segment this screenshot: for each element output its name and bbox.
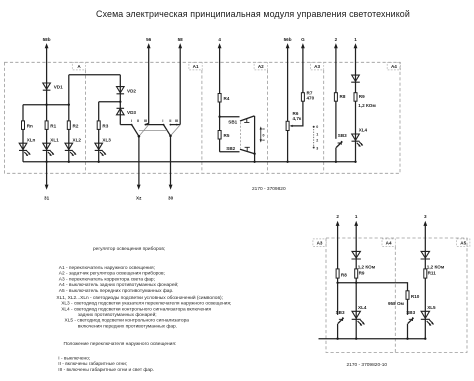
resistor Rn	[22, 121, 25, 129]
pushbutton SB3b actuator	[409, 317, 413, 321]
svg-text:А2 - задатчик регулятора освещ: А2 - задатчик регулятора освещения прибо…	[59, 271, 165, 277]
svg-text:регулятор освещения приборов;: регулятор освещения приборов;	[93, 246, 165, 252]
junction dots bottom schematic	[336, 282, 426, 340]
svg-text:1: 1	[316, 132, 318, 136]
svg-text:A4: A4	[386, 241, 392, 246]
svg-text:VD3: VD3	[127, 110, 136, 115]
diode VD2	[117, 87, 125, 94]
legend text block	[56, 246, 231, 373]
svg-text:58b: 58b	[43, 37, 51, 42]
svg-text:30: 30	[168, 196, 174, 201]
wire switch2 feed from 56	[145, 124, 163, 126]
svg-text:XL5 - светодиод подсветки конт: XL5 - светодиод подсветки контрольного с…	[65, 318, 190, 324]
svg-text:I: I	[162, 119, 163, 123]
svg-text:II: II	[169, 119, 171, 123]
svg-text:A1: A1	[193, 64, 199, 69]
LED XL1	[43, 143, 54, 155]
svg-text:R9: R9	[359, 94, 365, 99]
wire 1 column	[355, 47, 357, 162]
svg-text:задних противотуманных фонарей: задних противотуманных фонарей;	[78, 311, 157, 318]
svg-text:1,2 КОм: 1,2 КОм	[358, 265, 376, 270]
svg-text:А4 - выключатель задних против: А4 - выключатель задних противотуманных …	[59, 281, 179, 288]
resistor R9	[354, 93, 357, 102]
top terminal labels	[43, 37, 358, 201]
wire R5 bottom to SB2	[220, 151, 240, 153]
section divider A1|A2	[201, 70, 203, 173]
wire Rn column	[22, 105, 24, 162]
svg-text:A3: A3	[314, 64, 320, 69]
svg-text:58: 58	[178, 37, 184, 42]
wire 3 column bottom schematic	[424, 225, 426, 339]
svg-text:III: III	[144, 119, 147, 123]
resistor R1	[45, 121, 48, 129]
LED XL2	[65, 143, 76, 155]
wire R3 column	[98, 102, 100, 162]
wire 30 column	[170, 136, 172, 185]
svg-text:R5: R5	[224, 133, 230, 138]
bottom schematic terminal labels	[336, 214, 427, 219]
svg-text:3: 3	[424, 214, 427, 219]
terminal 3 arrow bottom	[423, 221, 427, 226]
svg-text:SB3: SB3	[406, 310, 415, 315]
diode VD3	[117, 108, 125, 115]
diode VD1	[43, 83, 51, 90]
pushbutton SB1 lever	[240, 116, 254, 121]
svg-text:R3: R3	[102, 123, 108, 128]
resistor R7	[301, 93, 304, 102]
svg-text:Rn: Rn	[27, 123, 33, 128]
wire R2 column	[68, 75, 70, 162]
wire 56b column	[287, 47, 289, 162]
svg-text:31: 31	[44, 196, 50, 201]
resistor R5	[218, 131, 221, 140]
svg-text:SB1: SB1	[228, 120, 237, 125]
wire lower bus	[23, 161, 356, 163]
rheostat R6 wiper arrow	[290, 125, 293, 127]
svg-text:А1 - переключатель наружного о: А1 - переключатель наружного освещения;	[59, 265, 155, 271]
wire 56 column	[145, 47, 148, 124]
svg-text:56: 56	[146, 37, 152, 42]
svg-text:XL3: XL3	[102, 138, 111, 143]
wire node bus to R10	[338, 283, 408, 291]
bottom schematic dashed enclosure	[326, 238, 467, 353]
svg-text:II - включены габаритные огни;: II - включены габаритные огни;	[58, 361, 127, 367]
top schematic dashed enclosure	[5, 62, 401, 173]
wire SB3b lower leg	[407, 324, 409, 339]
svg-text:R1: R1	[50, 123, 56, 128]
component labels top schematic	[27, 84, 377, 151]
svg-text:2170 - 3709820-10: 2170 - 3709820-10	[347, 362, 388, 368]
svg-text:1,2 КОм: 1,2 КОм	[358, 103, 376, 108]
wire upper bus	[23, 104, 69, 106]
LED XL5	[421, 311, 434, 325]
svg-text:1: 1	[354, 37, 357, 42]
switch SA2 alternate throw	[171, 125, 181, 136]
svg-text:Положение переключателя наружн: Положение переключателя наружного освеще…	[64, 341, 177, 347]
wire 58 column	[179, 47, 181, 124]
wire ground bus bottom schematic	[319, 338, 426, 340]
wire 2 column bottom schematic	[337, 225, 339, 315]
LED XL3	[95, 143, 106, 155]
LED XL4	[352, 134, 363, 146]
svg-text:A2: A2	[258, 64, 264, 69]
wire 4 column through R4 R5	[219, 47, 221, 152]
switch coupling link	[139, 130, 167, 132]
wire Xz column	[138, 136, 140, 185]
svg-text:0: 0	[316, 125, 318, 129]
pushbutton SB3 lever	[336, 142, 342, 148]
svg-text:4,7к: 4,7к	[293, 116, 302, 121]
svg-text:G: G	[301, 37, 305, 42]
terminal 2 arrow	[334, 43, 338, 48]
svg-text:включения передних противотума: включения передних противотуманных фар.	[78, 323, 177, 329]
button travel annotation	[260, 126, 265, 142]
svg-text:XL4 - светодиод подсветки кон: XL4 - светодиод подсветки контрольного с…	[61, 306, 211, 312]
resistor R3	[97, 121, 100, 129]
diode VD5	[352, 251, 361, 259]
section divider A|A1	[85, 70, 87, 173]
svg-text:III: III	[175, 119, 178, 123]
svg-text:XL3 - светодиод подсветки указ: XL3 - светодиод подсветки указателя пере…	[61, 301, 231, 307]
svg-text:R11: R11	[428, 270, 437, 275]
component labels bottom schematic	[336, 265, 445, 315]
wire 1 column bottom schematic	[355, 225, 357, 339]
diode VD4	[351, 75, 360, 82]
svg-text:1: 1	[355, 214, 358, 219]
svg-text:A5: A5	[460, 241, 466, 246]
wire 2 column upper	[335, 47, 337, 139]
resistor R4	[218, 94, 221, 103]
pushbutton SB3a lever	[338, 318, 344, 324]
switch SA1 alternate throw	[139, 125, 149, 136]
pushbutton SB3 actuator	[338, 141, 342, 145]
svg-text:SB3: SB3	[338, 133, 347, 138]
svg-text:III - включены габаритные огни: III - включены габаритные огни и свет фа…	[58, 367, 154, 373]
svg-text:R4: R4	[224, 96, 230, 101]
svg-text:А5 - выключатель передних прот: А5 - выключатель передних противотуманны…	[59, 288, 174, 294]
LED XL4 bottom	[352, 311, 365, 325]
svg-text:2: 2	[336, 214, 339, 219]
terminal 4 arrow	[218, 43, 222, 48]
terminal G arrow	[301, 43, 305, 48]
wire junction to SB1	[220, 116, 240, 118]
wire 58b column down to terminal 31	[46, 47, 48, 185]
svg-text:XL2: XL2	[73, 138, 82, 143]
wire 58 stub to switch2 contacts	[170, 124, 180, 126]
terminal 1 arrow bottom	[354, 221, 358, 226]
svg-text:A3: A3	[317, 241, 323, 246]
section divider A4|A5 bottom	[394, 246, 396, 352]
pushbutton SB3b lever	[408, 318, 414, 324]
svg-text:SB3: SB3	[336, 310, 345, 315]
terminal 58b arrow	[45, 43, 49, 48]
diode VD6	[421, 251, 430, 259]
svg-text:3: 3	[316, 147, 318, 151]
svg-text:2: 2	[335, 37, 338, 42]
svg-text:I - выключено;: I - выключено;	[58, 356, 90, 362]
svg-text:I: I	[131, 119, 132, 123]
svg-text:II: II	[137, 119, 139, 123]
svg-text:2170 - 3709820: 2170 - 3709820	[252, 186, 286, 192]
svg-text:VD1: VD1	[54, 84, 63, 89]
pushbutton SB2 lever	[240, 149, 255, 154]
pushbutton SB1 actuator	[244, 119, 249, 123]
svg-text:XL4: XL4	[359, 128, 368, 133]
svg-text:1,2 КОм: 1,2 КОм	[427, 265, 445, 270]
svg-text:R2: R2	[73, 123, 79, 128]
wire 2 column lower	[335, 148, 337, 162]
pushbutton SB2 actuator	[245, 147, 250, 151]
svg-text:4: 4	[218, 37, 221, 42]
pushbutton SB3a actuator	[339, 317, 343, 321]
terminal 1 arrow	[354, 43, 358, 48]
svg-text:R9: R9	[359, 270, 365, 275]
wire switch1 feed	[120, 124, 131, 126]
svg-text:VD2: VD2	[127, 88, 136, 93]
wire SB1 SB2 right leg	[254, 116, 256, 162]
resistor R8	[334, 93, 337, 102]
svg-text:A4: A4	[391, 64, 397, 69]
svg-text:SB2: SB2	[226, 146, 235, 151]
svg-text:XL4: XL4	[358, 305, 367, 310]
svg-text:R8: R8	[340, 94, 346, 99]
wire G column through R7	[292, 47, 303, 126]
mechanical link SB1 SB2	[240, 122, 242, 148]
terminal 58 arrow	[178, 43, 182, 48]
terminal 56b arrow	[286, 43, 290, 48]
svg-text:А3 - переключатель корректора: А3 - переключатель корректора света фар;	[59, 276, 155, 282]
resistor R8 bottom	[336, 269, 339, 278]
section divider A3|A4	[323, 70, 325, 173]
switch position numerals	[131, 119, 178, 123]
LED XLn	[19, 143, 30, 155]
wire SB3a lower leg	[337, 324, 339, 339]
svg-text:56b: 56b	[284, 37, 292, 42]
rheostat R6 body	[286, 121, 289, 130]
wire R10 to SB3b	[407, 299, 409, 315]
svg-text:0: 0	[263, 134, 265, 138]
wire tap to R3	[99, 101, 121, 103]
svg-text:2: 2	[316, 139, 318, 143]
terminal Xz arrow	[137, 185, 141, 190]
svg-text:XL1: XL1	[50, 138, 59, 143]
svg-text:R8: R8	[341, 272, 347, 277]
section label boxes	[72, 62, 400, 70]
terminal 2 arrow bottom	[336, 221, 340, 226]
junction dots	[45, 101, 356, 163]
svg-text:Xz: Xz	[136, 196, 142, 201]
section divider A2|A3	[266, 70, 268, 173]
corrector position scale	[313, 125, 319, 150]
switch SA1 lever	[132, 125, 139, 137]
terminal 31 arrow	[45, 185, 49, 190]
terminal 30 arrow	[169, 185, 173, 190]
svg-text:Схема электрическая принципиал: Схема электрическая принципиальная модул…	[96, 9, 410, 19]
switch SA2 lever	[164, 125, 171, 136]
svg-text:XL5: XL5	[427, 305, 436, 310]
svg-text:470: 470	[307, 96, 315, 101]
svg-text:XL1, XL2...XLn - светодиоды по: XL1, XL2...XLn - светодиоды подсветки ус…	[56, 294, 223, 301]
svg-text:958 Ом: 958 Ом	[388, 301, 405, 306]
resistor R11	[424, 269, 427, 278]
svg-text:R10: R10	[411, 294, 420, 299]
wire VD2 VD3 column	[119, 75, 121, 125]
terminal 56 arrow	[147, 43, 151, 48]
wire feed to section A	[69, 74, 121, 76]
resistor R10	[406, 291, 409, 300]
svg-text:XLn: XLn	[27, 138, 36, 143]
resistor R9 bottom	[355, 269, 358, 278]
resistor R2	[67, 121, 70, 129]
switch contact dots	[131, 124, 178, 126]
